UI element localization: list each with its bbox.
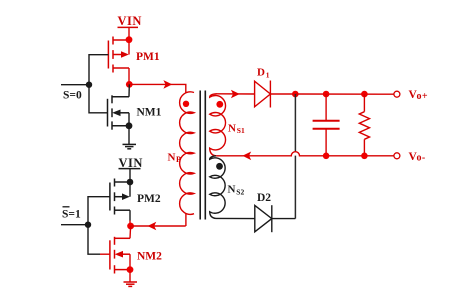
transistor NM1: [108, 95, 130, 129]
svg-text:PM1: PM1: [136, 51, 160, 63]
terminal Vo-: [394, 153, 400, 159]
transistor NM2: [110, 237, 130, 274]
transformer primary winding NP: [180, 92, 194, 214]
input S=0 wire: [61, 84, 89, 86]
wire NM2 source to ground: [129, 270, 131, 282]
node S (black dot): [86, 82, 92, 88]
power symbol VIN (bottom, black): [119, 156, 143, 182]
node output2 (red dot): [127, 223, 134, 230]
bottom rail Vo- to center tap (red, hop over black line, arrow left): [291, 152, 299, 156]
svg-text:NM1: NM1: [137, 107, 162, 119]
node capacitor bottom: [323, 153, 330, 160]
svg-text:S1: S1: [237, 126, 245, 135]
svg-text:VIN: VIN: [118, 14, 142, 28]
transformer secondary winding NS2: [210, 156, 225, 219]
wire Sbar node to NM2 gate (black then red): [88, 225, 100, 255]
svg-text:N: N: [168, 152, 176, 164]
resistor R: [359, 94, 369, 156]
svg-text:N: N: [228, 184, 236, 196]
polarity dot NS1: [216, 101, 223, 108]
svg-text:S2: S2: [236, 188, 244, 197]
capacitor C: [313, 94, 340, 156]
wire NS2 to D2: [216, 217, 255, 219]
node resistor bottom: [361, 153, 368, 160]
svg-text:P: P: [176, 155, 181, 164]
node output1 (red dot): [126, 81, 133, 88]
terminal Vo+: [394, 91, 400, 97]
ground (NM2, red): [124, 282, 138, 286]
power symbol VIN (top, red): [118, 14, 142, 40]
wire S node to PM1 gate: [89, 55, 108, 85]
wire D2 cathode up to top rail (black vertical): [294, 94, 296, 219]
node NM2 source (red dot): [127, 266, 134, 273]
polarity dot NS2: [216, 163, 223, 170]
svg-text:1: 1: [266, 71, 270, 80]
diode D1: [255, 81, 296, 108]
svg-text:NM2: NM2: [137, 251, 162, 263]
node resistor top: [361, 91, 368, 98]
transistor PM2: [110, 179, 133, 215]
diode D2: [255, 205, 296, 232]
wire NM1 source to ground: [128, 126, 130, 145]
transformer core: [200, 91, 205, 220]
wire NS1 to D1 (red, arrow right): [216, 90, 255, 99]
wire PM2 drain to node2: [129, 210, 131, 220]
input S=1 wire: [61, 224, 88, 226]
svg-text:D: D: [257, 67, 265, 79]
svg-text:D2: D2: [257, 192, 271, 204]
svg-text:S=0: S=0: [63, 90, 82, 102]
transistor PM1: [108, 36, 132, 72]
wire Sbar node to PM2 gate: [88, 197, 110, 225]
wire PM1 drain to node: [128, 68, 130, 84]
node capacitor top: [323, 91, 330, 98]
svg-text:o+: o+: [417, 91, 429, 102]
transformer secondary winding NS1: [210, 94, 226, 156]
svg-text:PM2: PM2: [137, 193, 161, 205]
node Sbar (black dot): [85, 222, 91, 228]
svg-text:N: N: [228, 123, 236, 135]
ground (NM1): [123, 144, 137, 148]
wire node2 to NM2 drain: [129, 226, 132, 238]
node after D1 (red dot): [292, 91, 299, 98]
node NM1 source (black dot): [126, 122, 133, 129]
wire node to primary top (red, arrow right): [129, 80, 186, 93]
wire S node to NM1 gate: [89, 85, 108, 113]
wire node to NM1 drain: [128, 84, 130, 96]
svg-text:S=1: S=1: [62, 209, 81, 221]
wire node2 to primary bottom (red, arrow left): [131, 213, 186, 230]
top rail to Vo+: [295, 93, 393, 95]
svg-text:o-: o-: [417, 153, 426, 164]
polarity dot NP: [183, 101, 189, 107]
